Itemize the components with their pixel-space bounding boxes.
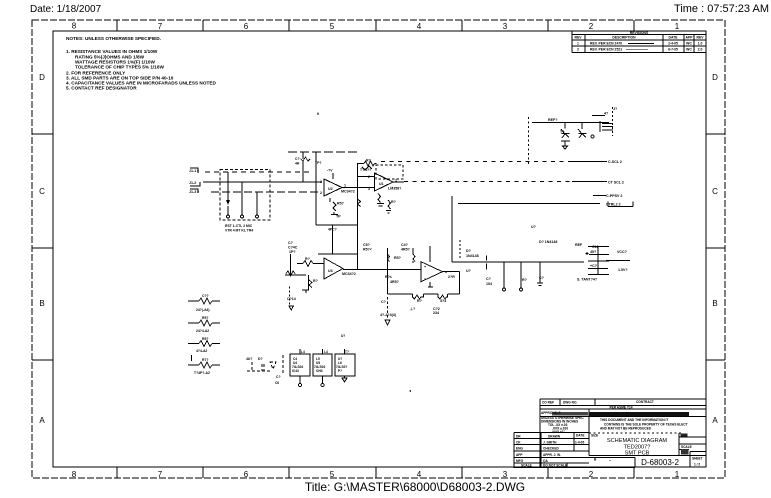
svg-text:SCHEMATIC DIAGRAM: SCHEMATIC DIAGRAM bbox=[607, 438, 668, 444]
svg-text:SCALE: SCALE bbox=[521, 464, 532, 468]
svg-text:R?: R? bbox=[313, 279, 318, 283]
svg-text:J1-1: J1-1 bbox=[189, 169, 196, 173]
svg-text:TP?: TP? bbox=[315, 161, 321, 165]
svg-text:1P?: 1P? bbox=[289, 250, 296, 254]
svg-text:4?-2?4(4): 4?-2?4(4) bbox=[380, 313, 397, 317]
svg-text:J. SMITH: J. SMITH bbox=[543, 440, 557, 444]
svg-text:5: 5 bbox=[330, 470, 335, 479]
svg-text:B: B bbox=[39, 299, 44, 308]
svg-text:⊥?: ⊥? bbox=[410, 307, 415, 311]
svg-text:C?: C? bbox=[276, 375, 281, 379]
svg-text:TOLERANCE OF CHIP TYPES 5% 1/1: TOLERANCE OF CHIP TYPES 5% 1/16W bbox=[75, 65, 164, 70]
svg-text:3: 3 bbox=[503, 22, 508, 31]
svg-text:PER ASME Y14: PER ASME Y14 bbox=[609, 406, 632, 410]
svg-text:VCC?: VCC? bbox=[617, 250, 627, 254]
svg-text:C: C bbox=[712, 187, 718, 196]
svg-text:4H: 4H bbox=[295, 162, 300, 166]
svg-text:L4: L4 bbox=[324, 350, 328, 354]
svg-text:S. TANT?4?: S. TANT?4? bbox=[577, 278, 597, 282]
svg-text:C?: C? bbox=[486, 277, 491, 281]
svg-text:7: 7 bbox=[158, 470, 163, 479]
svg-text:CHECKED: CHECKED bbox=[543, 447, 559, 451]
svg-text:7: 7 bbox=[158, 22, 163, 31]
svg-text:C?: C? bbox=[288, 241, 293, 245]
svg-text:C5?: C5? bbox=[363, 243, 370, 247]
svg-text:IC43: IC43 bbox=[292, 369, 299, 373]
svg-text:QA: QA bbox=[543, 459, 548, 463]
svg-text:+: + bbox=[424, 265, 426, 269]
svg-text:D: D bbox=[712, 73, 718, 82]
svg-text:1N4148: 1N4148 bbox=[466, 254, 479, 258]
svg-text:D-68003-2: D-68003-2 bbox=[641, 458, 679, 467]
svg-text:T?: T? bbox=[345, 350, 349, 354]
svg-text:1: 1 bbox=[577, 42, 579, 46]
svg-text:T?R??: T?R?? bbox=[360, 168, 371, 172]
svg-text:45?: 45? bbox=[590, 250, 596, 254]
svg-text:U2: U2 bbox=[328, 187, 333, 191]
svg-text:C??: C?? bbox=[202, 294, 209, 298]
svg-text:DRAWN: DRAWN bbox=[548, 434, 561, 438]
svg-text:4?4-A2: 4?4-A2 bbox=[196, 349, 207, 353]
svg-text:REF?: REF? bbox=[548, 118, 557, 122]
svg-text:2: 2 bbox=[577, 47, 579, 51]
svg-text:REV. PER ECN 2521: REV. PER ECN 2521 bbox=[590, 47, 622, 51]
svg-text:REV. PER ECN 2470: REV. PER ECN 2470 bbox=[590, 42, 622, 46]
svg-text:Time : 07:57:23 AM: Time : 07:57:23 AM bbox=[674, 3, 769, 15]
svg-text:A: A bbox=[39, 416, 45, 425]
svg-text:234: 234 bbox=[433, 311, 439, 315]
svg-text:+C?: +C? bbox=[590, 264, 597, 268]
svg-text:A: A bbox=[712, 416, 718, 425]
svg-text:SHEET: SHEET bbox=[692, 457, 703, 461]
svg-text:DATE: DATE bbox=[669, 36, 679, 40]
svg-text:U?: U? bbox=[531, 225, 536, 229]
svg-text:4R5?: 4R5? bbox=[401, 248, 410, 252]
svg-text:2: 2 bbox=[589, 470, 594, 479]
svg-text:CK: CK bbox=[516, 440, 521, 444]
svg-text:1-4-05: 1-4-05 bbox=[575, 440, 584, 444]
svg-text:1: 1 bbox=[395, 179, 397, 183]
svg-text:C?4C: C?4C bbox=[288, 246, 298, 250]
svg-text:CO REF: CO REF bbox=[542, 401, 554, 405]
svg-text:DO NOT SCALE: DO NOT SCALE bbox=[543, 464, 567, 468]
svg-text:T?: T? bbox=[560, 130, 564, 134]
svg-text:Date: 1/18/2007: Date: 1/18/2007 bbox=[30, 4, 102, 15]
svg-text:D?: D? bbox=[466, 249, 471, 253]
svg-text:2.0: 2.0 bbox=[698, 47, 703, 51]
svg-text:SIZE: SIZE bbox=[591, 434, 598, 438]
svg-text:2-4-05: 2-4-05 bbox=[668, 42, 678, 46]
svg-text:AND MAY NOT BE REPRODUCED: AND MAY NOT BE REPRODUCED bbox=[600, 427, 652, 431]
svg-text:U?: U? bbox=[341, 334, 345, 338]
svg-text:3: 3 bbox=[503, 470, 508, 479]
svg-text:SMT PCB: SMT PCB bbox=[625, 451, 650, 457]
svg-text:ENG: ENG bbox=[516, 447, 523, 451]
svg-text:MC34?2: MC34?2 bbox=[341, 190, 355, 194]
svg-text:Title: G:\MASTER\68000\D68003-: Title: G:\MASTER\68000\D68003-2.DWG bbox=[305, 480, 525, 494]
svg-text:6-7-05: 6-7-05 bbox=[668, 47, 678, 51]
svg-text:C-PPSV 2: C-PPSV 2 bbox=[606, 194, 622, 198]
svg-text:MC34?2: MC34?2 bbox=[342, 272, 356, 276]
svg-text:DATE: DATE bbox=[576, 434, 584, 438]
svg-text:WC: WC bbox=[686, 42, 692, 46]
svg-text:J1-3: J1-3 bbox=[189, 190, 196, 194]
svg-text:R5?: R5? bbox=[202, 337, 208, 341]
svg-text:SCALE: SCALE bbox=[681, 445, 692, 449]
svg-text:B: B bbox=[712, 299, 717, 308]
svg-text:C-SCL 2: C-SCL 2 bbox=[608, 160, 622, 164]
svg-text:DESCRIPTION: DESCRIPTION bbox=[612, 36, 636, 40]
svg-text:R5?: R5? bbox=[337, 202, 344, 206]
svg-text:DWG NO.: DWG NO. bbox=[563, 401, 577, 405]
svg-text:R5?: R5? bbox=[394, 256, 401, 260]
svg-text:C16: C16 bbox=[592, 245, 599, 249]
svg-text:U1: U1 bbox=[379, 182, 384, 186]
svg-text:D?: D? bbox=[258, 357, 263, 361]
svg-text:8: 8 bbox=[72, 470, 77, 479]
svg-text:T?4P?-A2: T?4P?-A2 bbox=[194, 371, 210, 375]
svg-text:RST 1-CTL 2 MIC: RST 1-CTL 2 MIC bbox=[225, 224, 253, 228]
svg-text:R?: R? bbox=[305, 257, 310, 261]
svg-text:24?(-A4): 24?(-A4) bbox=[196, 308, 210, 312]
svg-text:APPROVALS: APPROVALS bbox=[541, 411, 561, 415]
svg-text:1.5V?: 1.5V? bbox=[618, 268, 628, 272]
svg-text:3: 3 bbox=[320, 180, 322, 184]
svg-text:R?: R? bbox=[391, 200, 396, 204]
svg-text:CT SCL 2: CT SCL 2 bbox=[608, 181, 624, 185]
svg-text:APP: APP bbox=[686, 36, 694, 40]
svg-text:24?4-A2: 24?4-A2 bbox=[196, 329, 209, 333]
svg-text:D: D bbox=[39, 73, 45, 82]
svg-text:1. RESISTANCE VALUES IN OHMS: 1. RESISTANCE VALUES IN OHMS 1/10W bbox=[66, 49, 158, 54]
svg-text:APPR. J. W.: APPR. J. W. bbox=[543, 453, 561, 457]
svg-text:REV: REV bbox=[697, 36, 705, 40]
svg-text:C?14: C?14 bbox=[287, 297, 296, 301]
svg-text:C?: C? bbox=[295, 157, 300, 161]
svg-text:R5?: R5? bbox=[202, 316, 208, 320]
svg-text:DR: DR bbox=[516, 434, 521, 438]
svg-text:4?4: 4?4 bbox=[440, 299, 446, 303]
svg-text:4?: 4? bbox=[604, 112, 608, 116]
svg-text:APP: APP bbox=[516, 453, 523, 457]
svg-text:1 / 2: 1 / 2 bbox=[694, 463, 700, 467]
svg-text:VTR 4 MT KL TR4: VTR 4 MT KL TR4 bbox=[225, 229, 253, 233]
svg-text:1: 1 bbox=[675, 22, 680, 31]
svg-text:6: 6 bbox=[244, 22, 249, 31]
svg-text:C?: C? bbox=[539, 276, 544, 280]
svg-text:2?R: 2?R bbox=[448, 275, 455, 279]
svg-text:3: 3 bbox=[368, 187, 370, 191]
svg-text:REF: REF bbox=[575, 243, 583, 247]
svg-text:8: 8 bbox=[72, 22, 77, 31]
svg-text:REV: REV bbox=[575, 36, 583, 40]
svg-text:2: 2 bbox=[589, 22, 594, 31]
svg-text:J1-2: J1-2 bbox=[189, 181, 196, 185]
svg-text:104: 104 bbox=[486, 282, 492, 286]
svg-text:NOTES: UNLESS OTHERWISE SPECIF: NOTES: UNLESS OTHERWISE SPECIFIED. bbox=[66, 36, 161, 41]
svg-text:C4?: C4? bbox=[401, 243, 408, 247]
svg-text:L4: L4 bbox=[301, 350, 305, 354]
svg-text:P?: P? bbox=[338, 369, 342, 373]
svg-text:1: 1 bbox=[675, 470, 680, 479]
svg-text:CTRL2 2: CTRL2 2 bbox=[606, 203, 621, 207]
svg-text:R?: R? bbox=[417, 299, 422, 303]
svg-text:4: 4 bbox=[417, 22, 422, 31]
svg-text:4: 4 bbox=[417, 470, 422, 479]
svg-text:CONTRACT: CONTRACT bbox=[636, 400, 654, 404]
svg-text:C?: C? bbox=[381, 300, 386, 304]
svg-text:R?≤: R?≤ bbox=[385, 275, 392, 279]
svg-text:1.0: 1.0 bbox=[698, 42, 703, 46]
svg-text:U3: U3 bbox=[328, 269, 333, 273]
svg-text:WC: WC bbox=[686, 47, 692, 51]
svg-text:2: 2 bbox=[320, 191, 322, 195]
svg-text:R5?<: R5?< bbox=[363, 248, 372, 252]
svg-text:D? 1N4148: D? 1N4148 bbox=[539, 240, 557, 244]
svg-text:J?: J? bbox=[613, 107, 617, 111]
svg-text:+: + bbox=[445, 271, 447, 275]
svg-text:4U?: 4U? bbox=[246, 357, 252, 361]
svg-text:R?: R? bbox=[522, 278, 527, 282]
svg-text:TP: TP bbox=[336, 215, 341, 219]
svg-text:−: − bbox=[424, 277, 426, 281]
svg-text:5: 5 bbox=[330, 22, 335, 31]
svg-text:--: -- bbox=[609, 458, 611, 462]
svg-text:C6: C6 bbox=[275, 381, 279, 385]
svg-text:LM358?: LM358? bbox=[388, 187, 401, 191]
svg-text:REVISIONS: REVISIONS bbox=[630, 31, 649, 35]
svg-text:6: 6 bbox=[244, 470, 249, 479]
svg-text:MFG: MFG bbox=[516, 459, 524, 463]
svg-text:R7?: R7? bbox=[202, 358, 208, 362]
svg-text:OH3: OH3 bbox=[316, 369, 323, 373]
svg-text:-?V: -?V bbox=[327, 169, 333, 173]
svg-text:1: 1 bbox=[344, 184, 346, 188]
svg-text:2: 2 bbox=[368, 175, 370, 179]
svg-text:5. CONTACT REF DESIGNATOR: 5. CONTACT REF DESIGNATOR bbox=[66, 86, 137, 91]
svg-text:U?: U? bbox=[466, 269, 471, 273]
svg-text:4R5?: 4R5? bbox=[390, 280, 399, 284]
svg-text:R?: R? bbox=[366, 159, 371, 163]
svg-text:C: C bbox=[39, 187, 45, 196]
